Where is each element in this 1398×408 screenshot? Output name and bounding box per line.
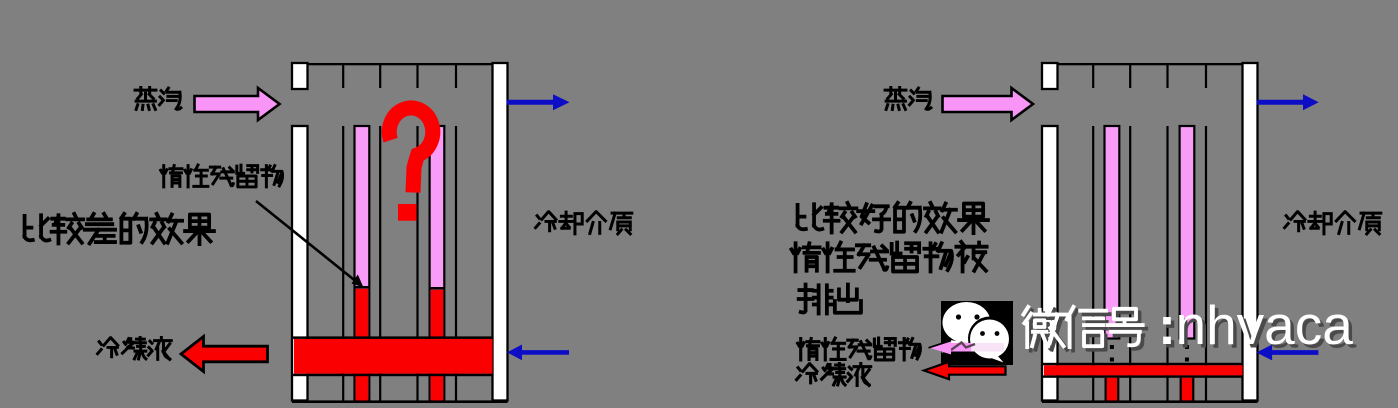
steam inlet arrow (pink, left) <box>195 88 280 120</box>
thin condensate bar (red) <box>1044 365 1243 375</box>
label: condensate 冷凝液 (right small) <box>797 364 871 386</box>
main vertical tube lines <box>1092 126 1094 401</box>
label: cooling medium 冷却介质 (left) <box>536 212 632 234</box>
left wall main segment (white) <box>292 126 308 401</box>
condensate outlet arrow (red, right small) <box>924 362 1006 379</box>
coolant outlet arrow (blue, top right of left unit) <box>507 94 570 110</box>
label: inert residue 惰性残留物 (right small) <box>798 338 921 360</box>
tube 2 (pink, drains freely) <box>1180 126 1195 339</box>
WeChat ID text 微信号: nhvaca (white with shadow) <box>1027 309 1146 350</box>
condensate outlet arrow (red, left) <box>181 337 268 372</box>
wire: bottom line <box>292 400 508 403</box>
main vertical tube lines <box>342 126 344 401</box>
header tube stub lines <box>342 65 344 88</box>
coolant outlet arrow (blue, top right of right unit) <box>1257 94 1319 110</box>
steam inlet arrow (pink, right) <box>943 88 1034 120</box>
WeChat icon (black square, two chat bubbles) <box>941 301 1013 365</box>
right wall (white) <box>1243 63 1258 401</box>
coolant inlet arrow (blue, bottom right of right unit) <box>1256 345 1318 361</box>
label: 惰性残留物被 <box>791 242 986 272</box>
wire: top header line <box>292 63 508 65</box>
tube 2 (pink above, red condensate below) <box>430 126 445 401</box>
label: cooling medium 冷却介质 (right) <box>1285 212 1381 234</box>
condensate drip dots <box>1110 345 1114 349</box>
label: poor result 比较差的效果 <box>25 214 214 244</box>
right wall (white) <box>493 63 508 401</box>
big red question mark <box>389 108 432 221</box>
red condensate stubs below bar <box>1105 378 1120 401</box>
tube 1 (pink, drains freely) <box>1105 126 1120 339</box>
wire: bottom line <box>1042 400 1258 403</box>
flooded condensate bar (red, thick) <box>294 339 493 374</box>
label: steam 蒸汽 (left) <box>135 88 181 110</box>
left wall top segment (white) <box>292 63 308 89</box>
label: good result 比较好的效果 <box>798 203 988 233</box>
header tube stub lines <box>1092 65 1094 88</box>
label: inert residue 惰性残留物 (left) <box>161 165 283 187</box>
svg-text:nhvaca: nhvaca <box>1176 294 1354 356</box>
heat exchanger body (right, good venting) <box>1042 63 1258 403</box>
left wall main segment (white) <box>1042 126 1058 401</box>
inert residue purge arrow (pink, right) <box>929 341 1005 355</box>
tube 1 (pink above, red condensate below) <box>355 126 370 401</box>
left wall top segment (white) <box>1042 63 1058 89</box>
annotation arrow to residue <box>256 201 364 288</box>
label: steam 蒸汽 (right) <box>885 88 931 110</box>
wire: top header line <box>1042 63 1258 65</box>
label: condensate 冷凝液 (left) <box>98 338 172 360</box>
svg-text::: : <box>1158 296 1176 356</box>
coolant inlet arrow (blue, bottom right of left unit) <box>507 345 569 361</box>
label: 排出 <box>799 285 861 314</box>
heat exchanger body (left, poor venting) <box>292 63 508 403</box>
